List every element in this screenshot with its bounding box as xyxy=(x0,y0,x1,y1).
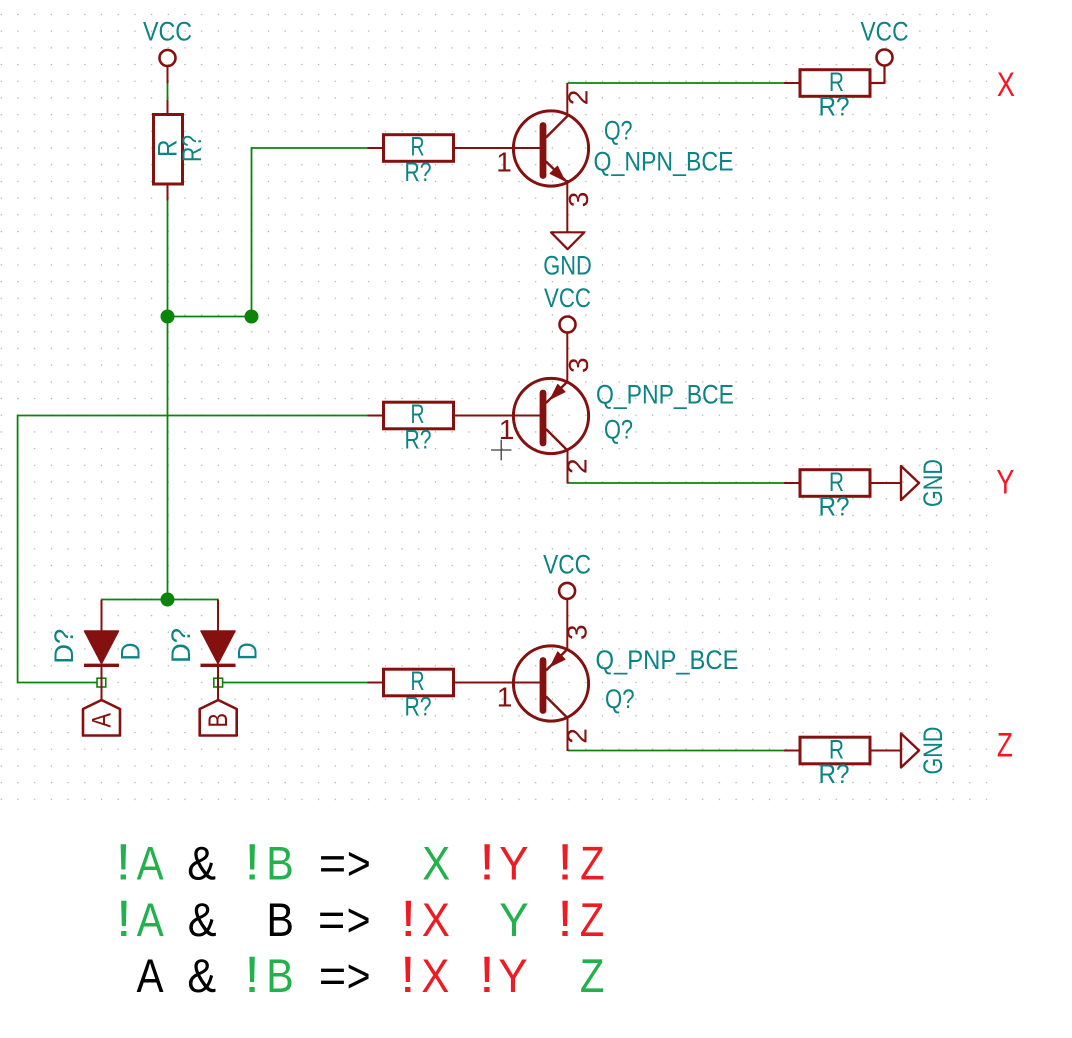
svg-text:X: X xyxy=(422,895,450,947)
svg-text:&: & xyxy=(187,949,216,1002)
svg-text:3: 3 xyxy=(562,624,593,640)
resistor R4 (Q2 base) pins xyxy=(368,415,385,417)
svg-text:!: ! xyxy=(557,834,573,891)
svg-text:D?: D? xyxy=(166,628,196,663)
svg-text:VCC: VCC xyxy=(544,283,591,313)
svg-text:D: D xyxy=(233,642,263,660)
node B wire-end square xyxy=(214,678,223,687)
svg-text:=: = xyxy=(319,949,346,1002)
power symbol GND (under Q1) xyxy=(543,232,592,280)
logic equation line 1: !A &amp; !B =&gt; X !Y !Z xyxy=(116,834,605,891)
svg-text:Q?: Q? xyxy=(605,684,635,714)
Q1 collector pin vertical xyxy=(566,83,568,117)
VCC top-right pin wire xyxy=(870,66,885,84)
svg-text:R?: R? xyxy=(405,425,432,455)
resistor R5 (Y load) xyxy=(800,470,870,497)
power symbol VCC (middle) xyxy=(544,283,591,333)
svg-text:X: X xyxy=(422,838,450,890)
svg-text:Q_PNP_BCE: Q_PNP_BCE xyxy=(596,379,734,409)
wire A node to Q2 base resistor xyxy=(18,415,368,417)
wire to R2 base resistor xyxy=(252,147,368,149)
svg-text:A: A xyxy=(87,713,117,728)
svg-text:D: D xyxy=(116,643,146,661)
wire diode anodes to pull-up junction xyxy=(102,599,219,601)
wire branch up to base resistor row xyxy=(251,147,253,317)
node A wire-end square xyxy=(97,678,106,687)
svg-text:R?: R? xyxy=(819,759,850,789)
wire NPN collector to X pull-up resistor xyxy=(568,82,785,84)
svg-text:R?: R? xyxy=(405,692,432,722)
svg-text:!: ! xyxy=(400,947,416,1004)
svg-text:Y: Y xyxy=(996,463,1014,501)
wire R1 down to diode junction xyxy=(167,200,169,600)
resistor R6 (Q3 base) xyxy=(384,669,454,696)
svg-text:!: ! xyxy=(479,947,495,1004)
svg-text:Z: Z xyxy=(997,726,1013,764)
logic equation line 3: A &amp; !B =&gt; !X !Y Z xyxy=(137,947,605,1004)
svg-text:X: X xyxy=(421,951,449,1003)
resistor R7 (Z load) pins xyxy=(784,750,800,752)
wire B node to Q3 base resistor xyxy=(223,682,368,684)
svg-text:GND: GND xyxy=(543,250,592,280)
svg-text:>: > xyxy=(347,894,371,946)
svg-text:Q_PNP_BCE: Q_PNP_BCE xyxy=(596,645,739,675)
svg-text:2: 2 xyxy=(563,90,594,106)
diode D1 xyxy=(84,631,119,665)
wire left vertical A node xyxy=(17,415,19,684)
svg-text:2: 2 xyxy=(562,728,593,744)
svg-text:!: ! xyxy=(244,834,260,891)
power symbol GND (Z output) xyxy=(901,727,948,775)
svg-text:Z: Z xyxy=(580,894,604,947)
svg-text:A: A xyxy=(137,838,165,890)
svg-text:Z: Z xyxy=(580,838,604,891)
svg-text:VCC: VCC xyxy=(143,17,192,47)
svg-text:R?: R? xyxy=(177,135,207,162)
power symbol GND (Y output) xyxy=(901,459,948,507)
svg-text:R?: R? xyxy=(819,492,850,522)
diode D2 anode pin xyxy=(217,600,219,632)
svg-text:3: 3 xyxy=(563,357,594,373)
svg-text:A: A xyxy=(137,950,165,1002)
svg-text:B: B xyxy=(266,950,293,1002)
resistor R2 (Q1 base) pins xyxy=(368,147,385,149)
svg-text:!: ! xyxy=(116,834,132,891)
anchor cross xyxy=(491,449,512,451)
wire junction row to NPN base branch xyxy=(167,316,253,318)
svg-text:=: = xyxy=(319,837,346,890)
wire VCC to R1 xyxy=(167,84,169,101)
svg-text:>: > xyxy=(347,950,371,1002)
transistor Q3 Q_PNP_BCE xyxy=(513,646,588,721)
junction at diode pull-up node xyxy=(161,593,175,607)
Q2 collector pin vertical xyxy=(567,451,569,484)
diode D1 anode pin xyxy=(101,600,103,632)
svg-text:!: ! xyxy=(244,947,260,1004)
wire Q3 collector to Z resistor xyxy=(568,750,785,752)
svg-text:>: > xyxy=(347,838,371,890)
transistor Q1 Q_NPN_BCE xyxy=(513,111,588,186)
transistor Q2 Q_PNP_BCE xyxy=(513,378,588,453)
junction at R1 bottom branch xyxy=(161,310,175,324)
svg-text:VCC: VCC xyxy=(543,549,591,579)
svg-text:GND: GND xyxy=(918,459,948,507)
svg-text:Z: Z xyxy=(580,950,604,1003)
svg-text:1: 1 xyxy=(497,682,513,713)
svg-text:B: B xyxy=(267,894,294,946)
svg-text:&: & xyxy=(188,893,217,946)
svg-text:!: ! xyxy=(401,891,417,948)
svg-text:Q?: Q? xyxy=(604,116,633,146)
resistor R6 (Q3 base) pins xyxy=(368,682,385,684)
svg-text:GND: GND xyxy=(918,727,948,775)
logic equation line 2: !A &amp; B =&gt; !X Y !Z xyxy=(116,891,604,948)
svg-text:Q?: Q? xyxy=(604,414,633,444)
svg-text:Y: Y xyxy=(499,894,528,947)
wire Z resistor to GND symbol xyxy=(870,750,901,752)
svg-text:=: = xyxy=(318,893,345,946)
svg-text:2: 2 xyxy=(562,458,593,474)
resistor R1 (pull-up, vertical) xyxy=(154,100,183,201)
svg-text:A: A xyxy=(137,894,165,946)
global label A xyxy=(83,700,120,736)
svg-text:3: 3 xyxy=(563,192,594,208)
wire Q2 collector to Y resistor xyxy=(568,482,785,484)
resistor R5 (Y load) pins xyxy=(784,482,800,484)
junction at NPN branch xyxy=(245,310,259,324)
svg-text:VCC: VCC xyxy=(861,16,909,46)
svg-text:Y: Y xyxy=(498,950,527,1003)
Q2 emitter pin vertical to VCC xyxy=(566,333,568,383)
global label B xyxy=(200,700,237,736)
diode D1 cathode pin to label A xyxy=(101,666,103,701)
resistor R3 (X pull-up) pins xyxy=(784,82,800,84)
svg-text:Y: Y xyxy=(499,837,528,890)
wire Y resistor to GND symbol xyxy=(870,482,901,484)
svg-text:B: B xyxy=(203,713,233,728)
svg-text:R?: R? xyxy=(819,92,850,122)
Q1 emitter pin vertical to GND xyxy=(566,180,568,232)
power symbol VCC (top right) xyxy=(861,16,909,66)
svg-text:B: B xyxy=(266,838,293,890)
diode D2 cathode pin to label B xyxy=(217,666,219,701)
svg-text:1: 1 xyxy=(496,146,512,177)
svg-text:X: X xyxy=(997,66,1015,104)
svg-text:Q_NPN_BCE: Q_NPN_BCE xyxy=(594,146,734,176)
svg-text:D?: D? xyxy=(49,629,79,664)
svg-text:&: & xyxy=(187,837,216,890)
diode D2 xyxy=(201,631,236,665)
resistor R7 (Z load) xyxy=(800,737,870,764)
power symbol VCC (top left) xyxy=(143,17,192,84)
resistor R2 (Q1 base) xyxy=(384,135,454,162)
svg-text:!: ! xyxy=(479,834,495,891)
resistor R3 (X pull-up) xyxy=(800,70,870,97)
resistor R4 (Q2 base) xyxy=(384,402,454,429)
power symbol VCC (bottom) xyxy=(543,549,591,599)
Q3 emitter pin vertical to VCC xyxy=(566,599,568,650)
svg-text:!: ! xyxy=(116,891,132,948)
wire to diode D1 cathode node A xyxy=(18,682,97,684)
svg-text:R?: R? xyxy=(405,157,432,187)
svg-text:!: ! xyxy=(557,891,573,948)
Q3 collector pin vertical xyxy=(567,719,569,752)
